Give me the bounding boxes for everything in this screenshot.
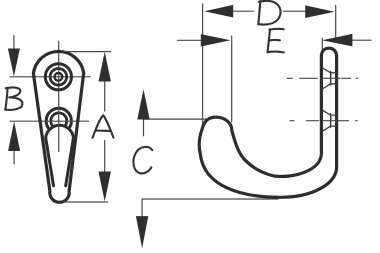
node front-view plate outline (33, 51, 83, 202)
dimension D left arrow (204, 5, 233, 18)
dimension C bottom arrow (141, 199, 143, 216)
dimension C top extension line (144, 118, 208, 120)
dimension A top arrow (104, 82, 106, 112)
dimension B lower arrow (13, 151, 15, 164)
dimension E right arrow (322, 34, 352, 47)
label D (258, 1, 280, 25)
node side-view upper countersink hole (322, 67, 337, 89)
node front-view hook-tip arch (46, 125, 74, 186)
node side-view lower hole centerline (290, 120, 357, 122)
node front-view top hole horizontal centerline (10, 76, 90, 78)
dimension A bottom arrow (104, 141, 106, 172)
dimension E left arrow (201, 34, 231, 46)
node front-view top hole circles (45, 64, 71, 90)
node side-view upper hole centerline (287, 77, 357, 79)
label A (93, 115, 114, 138)
dimension E left extension line (231, 36, 233, 122)
label C (133, 147, 152, 174)
node side-view lower countersink hole (322, 110, 337, 132)
node front-view vertical centerline (58, 41, 60, 151)
dimension D right extension line (335, 6, 337, 43)
dimension B upper arrow (13, 36, 15, 49)
label B (5, 87, 22, 110)
node front-view lower hole horizontal centerline (10, 120, 89, 122)
node side-view hook outline (199, 48, 336, 197)
dimension D line (233, 10, 305, 12)
dimension E right line (352, 39, 371, 41)
dimension A top extension line (64, 51, 111, 53)
dimension A bottom extension line (64, 201, 108, 203)
dimension C top arrow (143, 120, 145, 136)
node front-view lower hole circles (46, 108, 71, 133)
dimension D left extension line (202, 4, 204, 123)
dimension E left line (178, 39, 201, 41)
dimension E right extension line (321, 38, 323, 50)
label E (268, 29, 284, 53)
dimension D right arrow (305, 5, 334, 18)
dimension C bottom extension line (142, 198, 278, 200)
